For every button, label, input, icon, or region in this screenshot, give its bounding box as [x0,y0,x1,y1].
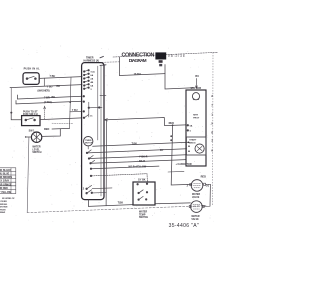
svg-text:TEMP: TEMP [139,214,146,216]
valve2 label [191,215,199,221]
svg-text:OR ORNGE: OR ORNGE [0,184,12,186]
bottom bus right [155,202,190,205]
svg-text:Y BK R: Y BK R [139,155,148,158]
timer lower contacts [86,150,95,177]
svg-text:W/ WIRE OF: W/ WIRE OF [2,198,15,200]
timer inner contacts top [83,70,106,119]
bundle wire B6 to WTS [92,174,148,183]
left dotted drop wire [10,88,12,112]
legend row texts [0,169,12,194]
svg-text:Y BU: Y BU [72,109,78,112]
wire from border down to top bus [119,57,121,75]
svg-text:Y YELLOW: Y YELLOW [0,192,12,194]
svg-text:VALVE: VALVE [192,196,200,199]
bottom bus left [88,205,133,207]
wire W1 lid sw to timer [39,77,82,79]
border top dashed [113,52,218,57]
start winding circle [195,144,204,153]
svg-text:V8.2/3E: V8.2/3E [168,54,186,58]
right mid vertical wire [171,126,191,185]
timer micro labels [90,70,95,117]
timer vertical rails [97,66,99,140]
right rail vertical [105,120,108,206]
svg-text:GY BK: GY BK [138,179,146,182]
svg-text:VALVE: VALVE [191,218,199,221]
svg-text:6A: 6A [90,74,93,77]
top bus wire [120,74,166,76]
svg-text:START: START [189,139,197,142]
svg-text:FROM: FROM [0,209,6,211]
timer bottom contacts [83,185,93,194]
timer box [82,63,104,200]
right edge pin marks [211,94,213,152]
svg-text:GY GRAY: GY GRAY [0,180,10,183]
svg-text:HARNESS (X): HARNESS (X) [84,59,100,62]
motor protector label [193,115,200,120]
border left [27,137,29,212]
svg-text:BU: BU [195,75,199,78]
timer motor circle [84,137,93,146]
svg-text:REAR: REAR [0,211,6,214]
notes text block [0,198,15,214]
corner W3 feed [17,95,19,99]
junction dots on vertical [170,135,172,137]
bundle wire B4 [91,160,186,164]
push to start label [23,110,38,116]
svg-text:SWITCH: SWITCH [139,217,148,219]
border right dotted [212,53,214,206]
wire W5 push sw to timer [40,118,82,120]
harness dashed line [91,61,120,64]
faint cross wire [52,122,73,124]
motor top arrow [196,79,198,89]
timer harness label [84,56,100,62]
bottom bus stub up [87,200,89,207]
bundle wire B5 [92,166,159,169]
svg-text:BK R: BK R [139,160,145,163]
svg-text:7 BR: 7 BR [44,96,50,99]
svg-text:RD RED: RD RED [0,188,8,190]
capacitor stub [168,170,184,173]
svg-text:MOTOR: MOTOR [85,142,93,144]
svg-text:MOTOR: MOTOR [191,86,202,90]
svg-text:BR BROWN: BR BROWN [0,177,12,179]
svg-text:WATER: WATER [32,146,40,149]
svg-text:WIRING: WIRING [0,204,7,206]
valve1 label [192,193,200,199]
scan speckle [8,47,213,222]
svg-text:(+): (+) [206,185,209,188]
bundle wire B3 [90,155,187,159]
svg-text:RED: RED [169,122,174,125]
svg-text:BK BLACK: BK BLACK [0,169,11,172]
svg-text:RED: RED [44,128,49,131]
valve right link wire [202,184,210,206]
water temp switch label bottom [139,211,148,220]
timer bottom stubs [92,187,112,190]
svg-text:PROT: PROT [193,117,200,119]
svg-text:SHOWN: SHOWN [0,207,8,209]
svg-text:16 BU: 16 BU [134,73,141,76]
svg-text:RED: RED [201,175,206,178]
water temp switch box [133,182,155,205]
dashed arrow riser [44,107,46,120]
title CONNECTION DIAGRAM [122,53,155,63]
svg-text:(WASHER): (WASHER) [38,89,50,92]
svg-text:7 BU: 7 BU [50,75,56,78]
svg-text:NO B=YELLOW: NO B=YELLOW [129,165,147,168]
lid switch SW1 [23,73,39,85]
svg-text:5A: 5A [90,84,93,87]
svg-text:BU BLUE: BU BLUE [0,174,10,176]
svg-text:MTR: MTR [193,115,198,117]
water valve 1 [191,180,203,192]
svg-text:CODED: CODED [0,201,7,203]
legend table [0,168,16,194]
motor left terminals [187,124,193,132]
svg-text:T.BK: T.BK [132,143,138,146]
svg-text:LEVEL: LEVEL [32,149,40,151]
Y BU riser wire [70,77,72,128]
title black box [155,52,166,59]
svg-text:T.BK: T.BK [118,202,124,205]
wire W2 long under lid box [10,85,82,88]
water valve 2 [191,201,203,213]
motor top circle [192,93,199,100]
svg-text:PUSH IN AL: PUSH IN AL [24,67,41,70]
connector arrows under title [159,60,163,63]
edge squiggle marks [100,56,106,65]
svg-text:35-4406 "A": 35-4406 "A" [169,223,199,229]
svg-text:2A: 2A [90,77,93,80]
start winding box [186,137,206,155]
junction dot RED node [172,124,174,126]
wire W4 [16,101,82,104]
svg-text:WATER: WATER [139,211,147,214]
start switch circle [31,132,41,142]
svg-text:4B: 4B [90,81,93,84]
svg-text:SW 1: SW 1 [29,129,36,132]
svg-text:WNDG: WNDG [189,142,196,144]
corner W4 feed [15,101,17,104]
border bottom dashed [27,206,206,213]
svg-text:BK: BK [52,96,56,99]
junction dot left [10,112,12,114]
svg-text:1C: 1C [90,116,93,118]
bundle wire B1 [93,142,189,146]
push to start switch SW2 [22,116,40,126]
pump label 3 lines [32,146,41,155]
title drop wire [165,65,194,90]
svg-text:WATER: WATER [192,193,200,196]
svg-text:DIAGRAM: DIAGRAM [129,58,147,63]
start circle right wire [42,129,61,137]
svg-text:BY: BY [160,149,164,152]
svg-text:(Y BU): (Y BU) [44,101,52,104]
bundle wire B2 [88,149,187,153]
motor box [186,90,206,166]
svg-text:1CA: 1CA [90,70,95,73]
wire W3 [18,96,83,99]
svg-text:SWITCH: SWITCH [32,152,41,154]
left drop to push switch [11,113,21,119]
wire timer to RED node [104,118,186,126]
svg-text:WATER: WATER [191,215,199,218]
svg-text:6A: 6A [190,124,193,127]
start circle left stub [25,136,31,138]
svg-text:BK: BK [57,85,61,88]
lid box right drop wire [43,78,45,86]
